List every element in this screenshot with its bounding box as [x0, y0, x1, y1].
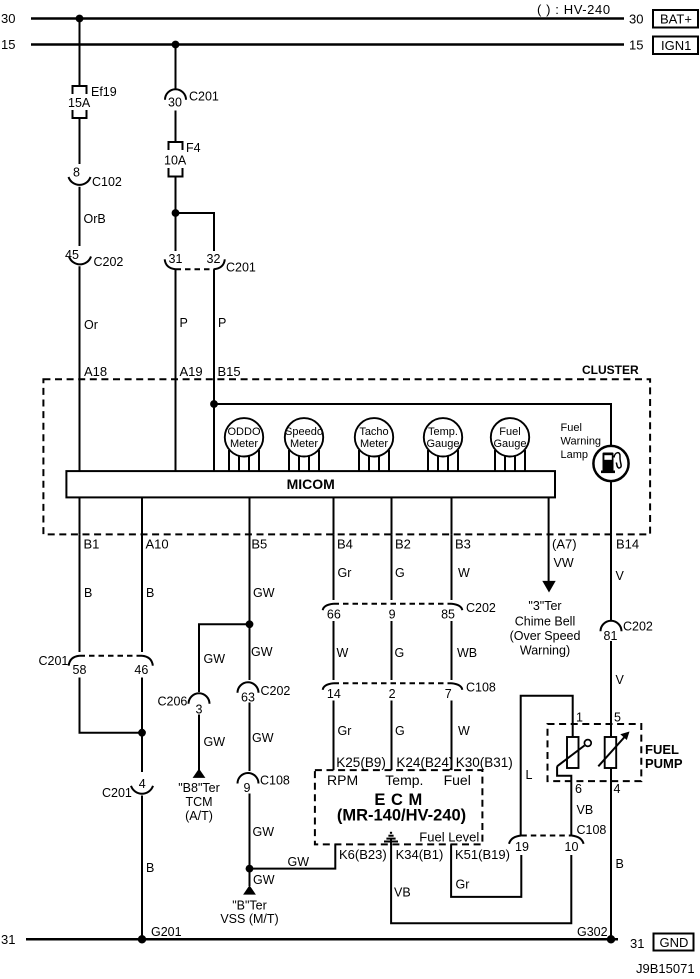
- svg-text:Speedo: Speedo: [285, 426, 323, 438]
- svg-text:K51(B19): K51(B19): [455, 847, 510, 862]
- svg-text:B15: B15: [218, 364, 241, 379]
- junction below F4: [172, 209, 180, 217]
- svg-text:9: 9: [244, 781, 251, 795]
- wire 66 to 14, colour W: [333, 621, 335, 680]
- wire pump pin 4 to G302, colour B: [610, 768, 612, 939]
- svg-text:VW: VW: [554, 556, 574, 570]
- FUEL PUMP box: [548, 724, 683, 781]
- CLUSTER box: [43, 363, 650, 534]
- wire C201 to fuse F4: [175, 111, 177, 143]
- svg-text:15: 15: [629, 38, 643, 53]
- wire rail 31 ground: [26, 938, 618, 941]
- svg-text:3: 3: [196, 703, 203, 717]
- arrow to TCM: [193, 769, 206, 778]
- gauge ODDO Meter: [225, 418, 263, 471]
- wire pump pin 6 to C108 pin 10, colour VB: [570, 781, 572, 836]
- svg-text:GW: GW: [253, 586, 275, 600]
- svg-text:C202: C202: [623, 620, 653, 634]
- fuel pump motor (with arrow): [598, 732, 629, 769]
- svg-text:Fuel: Fuel: [499, 426, 520, 438]
- svg-text:Gr: Gr: [338, 724, 352, 738]
- wire C202 63 to C108 9, colour GW: [249, 703, 251, 772]
- svg-text:15: 15: [1, 37, 15, 52]
- svg-text:10A: 10A: [164, 154, 187, 168]
- svg-text:K30(B31): K30(B31): [456, 755, 513, 770]
- svg-text:Warning): Warning): [520, 644, 570, 658]
- svg-text:VSS (M/T): VSS (M/T): [220, 912, 278, 926]
- svg-text:8: 8: [73, 166, 80, 180]
- svg-text:Gr: Gr: [338, 566, 352, 580]
- svg-text:"3"Ter: "3"Ter: [528, 599, 561, 613]
- svg-text:81: 81: [604, 629, 618, 643]
- svg-text:B14: B14: [616, 537, 639, 552]
- svg-text:30: 30: [168, 96, 182, 110]
- connector C201 pin 30: [165, 89, 219, 109]
- svg-text:19: 19: [515, 840, 529, 854]
- wire B1 to C201 pin 58, colour B: [79, 534, 81, 652]
- svg-text:K6(B23): K6(B23): [339, 847, 387, 862]
- svg-text:B5: B5: [251, 537, 267, 552]
- svg-text:14: 14: [327, 687, 341, 701]
- terminal GND: [654, 934, 694, 951]
- svg-text:W: W: [337, 646, 349, 660]
- svg-text:85: 85: [441, 608, 455, 622]
- svg-text:Meter: Meter: [360, 438, 388, 450]
- svg-text:OrB: OrB: [84, 212, 106, 226]
- arrow to VSS: [243, 885, 256, 894]
- block ECM (MR-140/HV-240): [315, 770, 483, 844]
- connector C201 pin 4: [102, 777, 153, 800]
- wire junction to ECM K6, colour GW: [250, 844, 336, 868]
- svg-text:FUEL: FUEL: [645, 742, 679, 757]
- svg-text:Warning: Warning: [561, 436, 602, 448]
- svg-text:"B8"Ter: "B8"Ter: [178, 781, 220, 795]
- svg-text:G: G: [395, 724, 405, 738]
- svg-text:Tacho: Tacho: [359, 426, 388, 438]
- wire fuse F4 to junction: [175, 177, 177, 252]
- wire branch to C206, colour GW: [199, 624, 250, 692]
- arrow to chime bell: [542, 581, 555, 593]
- svg-text:BAT+: BAT+: [660, 12, 692, 27]
- svg-text:F4: F4: [186, 141, 201, 155]
- wire C206 to TCM, colour GW: [198, 715, 200, 771]
- svg-text:P: P: [218, 316, 226, 330]
- wire B14 to C202 pin 81, colour V: [610, 534, 612, 620]
- svg-text:K24(B24): K24(B24): [396, 755, 453, 770]
- wire pin32 to junction B15, colour P: [213, 269, 215, 471]
- svg-text:Fuel Level: Fuel Level: [419, 830, 479, 845]
- svg-text:K34(B1): K34(B1): [396, 847, 444, 862]
- ground G302: [577, 925, 615, 944]
- svg-text:Gauge: Gauge: [493, 438, 526, 450]
- svg-text:32: 32: [207, 252, 221, 266]
- connector C102 pin 8: [69, 166, 122, 190]
- svg-text:(A/T): (A/T): [185, 809, 213, 823]
- svg-text:C202: C202: [261, 684, 291, 698]
- svg-text:GW: GW: [252, 731, 274, 745]
- connector C201 pins 58 46: [39, 654, 153, 677]
- wire rail 15: [31, 43, 624, 46]
- connector C202 pins 66 9 85: [323, 601, 496, 622]
- svg-text:WB: WB: [457, 646, 477, 660]
- wire pin31 to cluster pin A19, colour P: [175, 269, 177, 471]
- svg-text:(Over Speed: (Over Speed: [510, 629, 581, 643]
- connector C201 pins 31 32: [165, 252, 256, 275]
- wire A10 to C201 pin 46, colour B: [141, 534, 143, 652]
- svg-text:Temp.: Temp.: [385, 772, 423, 788]
- svg-text:GW: GW: [204, 652, 226, 666]
- svg-text:Fuel: Fuel: [444, 772, 471, 788]
- svg-text:A18: A18: [84, 364, 107, 379]
- connector C206 pin 3: [158, 693, 210, 716]
- svg-text:G302: G302: [577, 925, 608, 939]
- wire MICOM pin A7: [548, 497, 550, 534]
- wire 7 to ECM K30, colour W: [451, 701, 453, 771]
- svg-text:4: 4: [139, 777, 146, 791]
- svg-text:V: V: [616, 569, 625, 583]
- wire pin 46 to C201 pin 4: [141, 678, 143, 773]
- svg-text:GW: GW: [251, 645, 273, 659]
- svg-text:C108: C108: [577, 823, 607, 837]
- svg-text:B1: B1: [84, 537, 100, 552]
- svg-text:( ) : HV-240: ( ) : HV-240: [537, 2, 611, 17]
- svg-text:C202: C202: [94, 255, 124, 269]
- ground symbol inside ECM: [384, 833, 398, 845]
- junction below pin 46: [138, 729, 146, 737]
- svg-text:7: 7: [445, 687, 452, 701]
- svg-text:Gauge: Gauge: [426, 438, 459, 450]
- svg-text:B: B: [84, 586, 92, 600]
- svg-text:GW: GW: [288, 855, 310, 869]
- svg-text:C201: C201: [226, 261, 256, 275]
- wire MICOM pin B1: [79, 497, 81, 534]
- svg-text:GW: GW: [253, 825, 275, 839]
- connector C202 pin 63: [238, 682, 291, 704]
- svg-text:C108: C108: [260, 774, 290, 788]
- terminal IGN1: [653, 37, 698, 55]
- connector C108 pins 14 2 7: [323, 681, 496, 702]
- svg-text:P: P: [180, 316, 188, 330]
- gauge Speedo Meter: [285, 418, 323, 471]
- svg-text:MICOM: MICOM: [287, 476, 335, 492]
- junction on rail 15: [172, 41, 180, 49]
- svg-text:K25(B9): K25(B9): [336, 755, 386, 770]
- svg-text:J9B15071: J9B15071: [636, 961, 695, 976]
- svg-text:B: B: [616, 857, 624, 871]
- svg-text:C201: C201: [39, 654, 69, 668]
- wire rail30 to fuse Ef19: [79, 19, 81, 87]
- svg-text:G: G: [395, 646, 405, 660]
- svg-text:Temp.: Temp.: [428, 426, 458, 438]
- wire B5 down, colour GW: [249, 534, 251, 680]
- svg-text:Lamp: Lamp: [561, 449, 589, 461]
- svg-text:L: L: [526, 768, 533, 782]
- junction B15 branch: [210, 400, 218, 408]
- svg-text:C206: C206: [158, 695, 188, 709]
- junction on rail 30: [76, 15, 84, 23]
- wire MICOM pin B5: [249, 497, 251, 534]
- wire ECM K51 to C108 pin 19, colour Gr: [451, 844, 521, 897]
- wire B2 down, colour G: [391, 534, 393, 600]
- lamp Fuel Warning Lamp: [561, 422, 629, 481]
- svg-text:Or: Or: [84, 318, 98, 332]
- junction on B5 wire: [246, 620, 254, 628]
- svg-text:46: 46: [134, 663, 148, 677]
- wire pin 58 joins pin 46 branch: [80, 678, 143, 733]
- svg-text:TCM: TCM: [185, 795, 212, 809]
- svg-text:"B"Ter: "B"Ter: [232, 899, 267, 913]
- wire C108 9 to VSS junction, colour GW: [249, 794, 251, 887]
- svg-text:PUMP: PUMP: [645, 756, 683, 771]
- wire lamp to pin B14: [610, 481, 612, 535]
- wire rail15 to connector C201 pin 30: [175, 45, 177, 90]
- svg-text:C102: C102: [92, 175, 122, 189]
- fuse F4 10A: [164, 141, 201, 177]
- connector C108 pins 19 10: [509, 823, 606, 854]
- junction VSS branch: [246, 865, 254, 873]
- block MICOM: [66, 471, 555, 497]
- svg-text:W: W: [458, 566, 470, 580]
- svg-text:G201: G201: [151, 925, 182, 939]
- wire C201 pin4 to G201, colour B: [141, 796, 143, 940]
- svg-text:Meter: Meter: [290, 438, 318, 450]
- svg-text:B: B: [146, 586, 154, 600]
- svg-text:GW: GW: [253, 873, 275, 887]
- terminal BAT+: [653, 10, 698, 28]
- wire C202 to cluster pin A18, colour Or: [79, 266, 81, 471]
- svg-text:Meter: Meter: [230, 438, 258, 450]
- wire B15 junction to fuel warning lamp: [214, 404, 611, 447]
- wire fuel pump pin 1 feed: [521, 696, 573, 836]
- svg-text:5: 5: [614, 711, 621, 725]
- svg-text:45: 45: [65, 248, 79, 262]
- svg-text:Fuel: Fuel: [561, 422, 582, 434]
- connector C108 pin 9: [238, 773, 290, 795]
- svg-text:IGN1: IGN1: [661, 38, 691, 53]
- svg-text:58: 58: [73, 663, 87, 677]
- wire MICOM pin B2: [391, 497, 393, 534]
- svg-text:GND: GND: [660, 935, 689, 950]
- svg-text:VB: VB: [394, 886, 411, 900]
- svg-text:GW: GW: [204, 735, 226, 749]
- svg-text:31: 31: [1, 932, 15, 947]
- wire 9 to 2, colour G: [391, 621, 393, 680]
- svg-text:CLUSTER: CLUSTER: [582, 363, 639, 377]
- wire MICOM pin A10: [141, 497, 143, 534]
- svg-text:A19: A19: [180, 364, 203, 379]
- wire 2 to ECM K24, colour G: [391, 701, 393, 771]
- svg-text:ODDO: ODDO: [228, 426, 261, 438]
- wire fuse Ef19 to connector C102: [79, 118, 81, 164]
- svg-text:B: B: [146, 861, 154, 875]
- svg-text:A10: A10: [146, 537, 169, 552]
- gauge Fuel Gauge: [491, 418, 529, 471]
- svg-text:C201: C201: [102, 786, 132, 800]
- wire MICOM pin B4: [333, 497, 335, 534]
- wire B4 down, colour Gr: [333, 534, 335, 600]
- wire ECM K34 to C108 pin 10, colour VB: [391, 844, 571, 923]
- svg-text:VB: VB: [577, 803, 594, 817]
- wire B3 down, colour W: [451, 534, 453, 600]
- svg-text:Ef19: Ef19: [91, 85, 117, 99]
- svg-text:C201: C201: [189, 90, 219, 104]
- svg-text:2: 2: [389, 687, 396, 701]
- gauge Temp. Gauge: [424, 418, 462, 471]
- svg-text:10: 10: [565, 840, 579, 854]
- svg-text:15A: 15A: [68, 96, 91, 110]
- svg-text:V: V: [616, 673, 625, 687]
- svg-text:30: 30: [1, 11, 15, 26]
- wire MICOM pin B3: [451, 497, 453, 534]
- svg-text:1: 1: [576, 711, 583, 725]
- gauge Tacho Meter: [355, 418, 393, 471]
- svg-text:C108: C108: [466, 681, 496, 695]
- svg-text:63: 63: [241, 691, 255, 705]
- svg-text:30: 30: [629, 12, 643, 27]
- wire C202 81 to fuel pump pin 5, colour V: [610, 641, 612, 737]
- wire branch junction to pin 32: [176, 213, 215, 251]
- svg-text:B2: B2: [395, 537, 411, 552]
- fuel sender (variable resistor): [557, 737, 591, 781]
- svg-text:B4: B4: [337, 537, 353, 552]
- svg-text:RPM: RPM: [327, 772, 358, 788]
- svg-text:9: 9: [389, 608, 396, 622]
- wire rail 30: [31, 17, 624, 20]
- svg-text:W: W: [458, 724, 470, 738]
- wire 14 to ECM K25, colour Gr: [333, 701, 335, 771]
- svg-text:G: G: [395, 566, 405, 580]
- svg-text:(MR-140/HV-240): (MR-140/HV-240): [337, 807, 466, 825]
- svg-text:66: 66: [327, 608, 341, 622]
- svg-text:31: 31: [169, 252, 183, 266]
- svg-text:Gr: Gr: [456, 878, 470, 892]
- connector C202 pin 45: [65, 248, 123, 269]
- svg-text:6: 6: [575, 782, 582, 796]
- wire A7 to chime bell, colour VW: [548, 534, 550, 582]
- svg-text:Chime Bell: Chime Bell: [515, 615, 575, 629]
- connector C202 pin 81: [601, 620, 653, 644]
- svg-text:4: 4: [614, 782, 621, 796]
- fuse Ef19 15A: [68, 85, 117, 118]
- svg-text:(A7): (A7): [552, 537, 577, 552]
- ground G201: [138, 925, 182, 944]
- svg-text:B3: B3: [455, 537, 471, 552]
- wire C102 to C202, colour OrB: [79, 187, 81, 246]
- svg-text:C202: C202: [466, 601, 496, 615]
- svg-text:31: 31: [630, 936, 644, 951]
- wire 85 to 7, colour WB: [451, 621, 453, 680]
